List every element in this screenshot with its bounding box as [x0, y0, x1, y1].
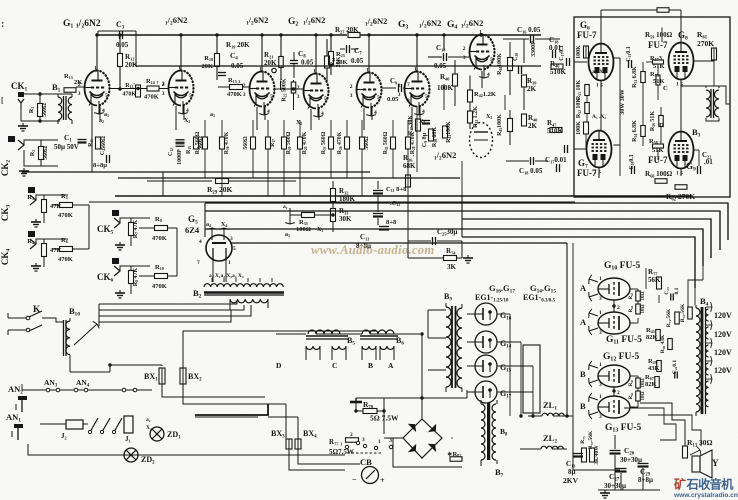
svg-text:R25 470K: R25 470K [302, 131, 308, 154]
svg-text:Y: Y [712, 458, 719, 468]
svg-text:4: 4 [487, 72, 490, 78]
svg-text:4: 4 [422, 109, 425, 115]
svg-text:C210.1: C210.1 [626, 46, 632, 62]
svg-text:2: 2 [350, 84, 353, 90]
svg-text:100Ω: 100Ω [296, 226, 311, 233]
svg-text:5: 5 [425, 94, 428, 100]
svg-text:R27 20K: R27 20K [335, 26, 359, 34]
svg-text:5: 5 [189, 93, 192, 99]
svg-text:5: 5 [233, 246, 236, 252]
svg-text:180K: 180K [339, 195, 356, 203]
svg-text:0.05: 0.05 [116, 41, 129, 49]
svg-text:3: 3 [599, 414, 602, 420]
svg-text:FU-7: FU-7 [577, 168, 597, 178]
svg-text:R56 51K: R56 51K [650, 111, 656, 132]
svg-text:8+8µ: 8+8µ [93, 162, 107, 169]
svg-text:R63: R63 [629, 292, 634, 299]
svg-text:C: C [332, 361, 337, 370]
svg-text:0.05: 0.05 [351, 57, 364, 65]
svg-text:G10 FU-5: G10 FU-5 [604, 261, 640, 272]
svg-text:2: 2 [350, 432, 353, 438]
svg-text:3: 3 [162, 91, 165, 97]
svg-text:4: 4 [186, 108, 189, 114]
svg-text:8µ: 8µ [568, 468, 576, 476]
svg-text:R8 47K: R8 47K [133, 267, 139, 286]
svg-text:120V: 120V [714, 311, 732, 320]
svg-text:560Ω: 560Ω [243, 136, 249, 150]
svg-text:R7 47K: R7 47K [133, 219, 139, 238]
svg-text:FU-7: FU-7 [648, 40, 668, 50]
svg-text:1/26N2: 1/26N2 [303, 15, 325, 27]
svg-text:CB: CB [360, 457, 372, 467]
svg-text:560Ω: 560Ω [42, 103, 48, 117]
svg-text:A1 .X2: A1 .X2 [592, 114, 606, 120]
svg-text:2K: 2K [528, 122, 538, 130]
svg-text:0.05: 0.05 [387, 96, 399, 103]
svg-text:4: 4 [267, 109, 270, 115]
svg-text:1 5: 1 5 [676, 82, 683, 88]
svg-text:3300P: 3300P [531, 41, 537, 57]
svg-text:3: 3 [230, 236, 233, 242]
svg-text:R45100K: R45100K [497, 114, 503, 136]
svg-text:2K: 2K [527, 85, 537, 93]
svg-text:G12 FU-5: G12 FU-5 [603, 352, 639, 363]
svg-text:30W 30W: 30W 30W [620, 89, 626, 114]
svg-text:50µ 50V: 50µ 50V [54, 143, 79, 151]
svg-text:1/26N2: 1/26N2 [165, 15, 187, 27]
svg-text:1/26N2: 1/26N2 [434, 150, 456, 162]
svg-text:B: B [580, 401, 586, 411]
svg-text:R13 30Ω: R13 30Ω [687, 438, 713, 448]
svg-text:R22 500K: R22 500K [282, 78, 288, 102]
svg-text:3: 3 [362, 437, 365, 443]
svg-text:100K: 100K [437, 84, 454, 92]
svg-text:7: 7 [197, 260, 200, 266]
svg-text:1/26N2: 1/26N2 [246, 15, 268, 27]
svg-text:C: C [663, 85, 668, 92]
svg-text:560Ω: 560Ω [198, 136, 204, 150]
svg-text:470K: 470K [227, 91, 242, 98]
svg-text:1: 1 [378, 439, 381, 445]
svg-text:30K: 30K [339, 215, 352, 223]
svg-text:1 5: 1 5 [596, 83, 603, 89]
svg-text:2: 2 [463, 46, 466, 52]
svg-text:−: − [352, 475, 357, 484]
svg-text:1000P: 1000P [177, 149, 183, 165]
svg-text:3: 3 [350, 93, 353, 99]
svg-text:0.1: 0.1 [674, 287, 680, 294]
svg-text:560Ω: 560Ω [43, 146, 49, 160]
svg-text:.01: .01 [704, 158, 713, 166]
svg-text:石收音机: 石收音机 [686, 477, 735, 492]
svg-text:R60 100Ω: R60 100Ω [645, 170, 673, 178]
svg-text:5: 5 [324, 96, 327, 102]
svg-text:1: 1 [599, 276, 602, 282]
svg-text:2: 2 [617, 390, 620, 396]
svg-text:R59 100Ω: R59 100Ω [645, 31, 673, 39]
svg-text:R64: R64 [629, 305, 634, 312]
svg-text:10Ω: 10Ω [641, 391, 646, 400]
svg-text:B: B [580, 369, 586, 379]
svg-text:120V: 120V [714, 348, 732, 357]
svg-text:120V: 120V [714, 330, 732, 339]
svg-text:51K: 51K [653, 78, 665, 85]
svg-text:3: 3 [78, 91, 81, 97]
svg-text:5: 5 [490, 57, 493, 63]
svg-text:www.Audio-audio.com: www.Audio-audio.com [311, 243, 435, 257]
svg-text:R29 20K: R29 20K [207, 185, 232, 195]
svg-text:1/26N2: 1/26N2 [365, 16, 387, 28]
svg-text:G13 FU-5: G13 FU-5 [605, 423, 641, 434]
svg-text:470K: 470K [152, 283, 167, 290]
svg-text:470K: 470K [58, 212, 73, 219]
svg-text:G11 FU-5: G11 FU-5 [606, 335, 642, 346]
svg-text:5: 5 [270, 94, 273, 100]
svg-text:560Ω: 560Ω [364, 136, 370, 150]
svg-text:FU-7: FU-7 [577, 30, 597, 40]
svg-text:1: 1 [599, 362, 602, 368]
svg-text:C18 0.05: C18 0.05 [519, 167, 543, 175]
svg-text:8+8µ: 8+8µ [638, 476, 653, 484]
svg-text:3: 3 [389, 438, 392, 444]
svg-text:R62 270K: R62 270K [666, 192, 695, 202]
svg-text:5Ω 7.5W: 5Ω 7.5W [370, 414, 399, 423]
svg-text:R63: R63 [629, 379, 634, 386]
svg-text:5Ω7.5W: 5Ω7.5W [329, 448, 354, 456]
svg-text:R64: R64 [629, 392, 634, 399]
svg-text:2: 2 [617, 305, 620, 311]
svg-text:[: [ [1, 96, 4, 105]
svg-text:R26 470K: R26 470K [337, 131, 343, 154]
svg-text:3K/40W: 3K/40W [594, 445, 600, 465]
svg-text:C9 8µ: C9 8µ [422, 132, 428, 147]
svg-text:矿: 矿 [674, 477, 686, 492]
svg-text:A: A [388, 361, 394, 370]
svg-text:3K: 3K [447, 263, 457, 271]
svg-text:A: A [580, 283, 587, 293]
svg-text:R71.56K: R71.56K [666, 308, 672, 327]
svg-text:7: 7 [407, 82, 410, 88]
svg-text:R421.2K: R421.2K [474, 91, 496, 98]
svg-text:0.05: 0.05 [301, 59, 314, 67]
svg-text:2KV: 2KV [563, 476, 579, 485]
svg-text:560Ω: 560Ω [101, 136, 107, 150]
svg-text:3: 3 [599, 382, 602, 388]
svg-text:R38 68K: R38 68K [432, 127, 438, 148]
svg-text:R20 560Ω: R20 560Ω [286, 131, 292, 154]
svg-text:3: 3 [297, 94, 300, 100]
svg-text:6Z4: 6Z4 [185, 225, 200, 235]
svg-text:470K: 470K [152, 235, 167, 242]
svg-text:C170.1: C170.1 [559, 45, 565, 61]
svg-text:8: 8 [407, 98, 410, 104]
svg-text:1/26N2: 1/26N2 [419, 18, 441, 30]
svg-text:4: 4 [374, 110, 377, 116]
svg-text:470K: 470K [122, 92, 136, 98]
svg-text:D: D [276, 361, 282, 370]
svg-text:R51 10K: R51 10K [576, 80, 582, 101]
svg-text:10Ω: 10Ω [641, 304, 646, 313]
svg-text:3: 3 [243, 92, 246, 98]
svg-text:R54 6.8K: R54 6.8K [632, 120, 638, 142]
svg-text:www.crystalradio.cn: www.crystalradio.cn [673, 492, 738, 499]
svg-text:A: A [580, 317, 587, 327]
svg-text:5: 5 [377, 95, 380, 101]
svg-text:5: 5 [105, 93, 108, 99]
svg-text:3: 3 [599, 330, 602, 336]
svg-text:1: 1 [228, 260, 231, 266]
svg-text:4: 4 [321, 111, 324, 117]
svg-text:R43 1.2K: R43 1.2K [473, 106, 479, 128]
svg-text:10Ω: 10Ω [641, 291, 646, 300]
svg-text:8+8: 8+8 [386, 219, 397, 226]
svg-text:1 5: 1 5 [676, 171, 683, 177]
svg-text:R28 470K: R28 470K [410, 131, 416, 154]
svg-text:1: 1 [599, 310, 602, 316]
svg-text:R41100K: R41100K [446, 121, 452, 143]
svg-text:1/26N2: 1/26N2 [461, 18, 483, 30]
svg-text:470K: 470K [58, 256, 73, 263]
svg-text:100K: 100K [576, 45, 582, 59]
svg-text:C170.01: C170.01 [545, 156, 567, 164]
svg-text:R49 43K: R49 43K [660, 334, 666, 353]
svg-text:270K: 270K [697, 39, 714, 48]
svg-text:2: 2 [243, 83, 246, 89]
svg-text:3: 3 [599, 296, 602, 302]
svg-text:R72.56K: R72.56K [680, 303, 686, 322]
svg-text:D: D [659, 122, 664, 129]
svg-text:2: 2 [297, 85, 300, 91]
svg-text:120V: 120V [714, 366, 732, 375]
svg-text::: : [1, 19, 4, 30]
svg-text:R16 470K: R16 470K [224, 131, 230, 154]
svg-text:470K: 470K [144, 94, 159, 101]
svg-text:C16 0.05: C16 0.05 [517, 26, 541, 34]
svg-text:1: 1 [599, 394, 602, 400]
svg-text:2K: 2K [74, 79, 82, 86]
svg-text:68K: 68K [403, 162, 416, 170]
svg-text:3: 3 [463, 55, 466, 61]
svg-text:+: + [380, 476, 385, 485]
svg-text:B: B [368, 361, 373, 370]
svg-text:R52 10K: R52 10K [576, 98, 582, 119]
svg-text:R53 6.8K: R53 6.8K [632, 66, 638, 88]
svg-text:R35 560Ω: R35 560Ω [383, 131, 389, 154]
svg-text:R19 20K: R19 20K [226, 41, 250, 49]
svg-text:C11 8+8: C11 8+8 [386, 186, 407, 193]
svg-text:30+30µ: 30+30µ [620, 456, 642, 464]
svg-text:2: 2 [162, 81, 165, 87]
svg-text:4: 4 [199, 239, 202, 245]
svg-text:R33 560Ω: R33 560Ω [321, 131, 327, 154]
svg-text:R44100K: R44100K [497, 53, 503, 75]
svg-text:100K: 100K [576, 121, 582, 135]
